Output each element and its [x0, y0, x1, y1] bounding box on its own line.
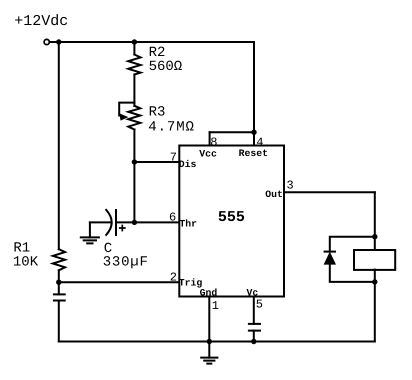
- svg-text:3: 3: [287, 179, 294, 193]
- wire capacitor to bottom rail: [58, 301, 60, 342]
- pin 4 stub: [253, 132, 255, 145]
- R3 wiper arrowhead: [119, 113, 128, 120]
- wire junction I to relay: [374, 237, 376, 250]
- svg-text:R3: R3: [149, 105, 166, 121]
- svg-text:Thr: Thr: [179, 219, 197, 230]
- pin 8 stub: [209, 132, 211, 145]
- svg-text:4.7MΩ: 4.7MΩ: [148, 120, 195, 136]
- wire top rail: [59, 41, 254, 43]
- wire top rail down to pin4: [253, 42, 255, 132]
- pin 3 Out wire: [284, 191, 375, 193]
- R3 wiper hook: [119, 103, 134, 116]
- wire diode bottom: [330, 265, 375, 282]
- ground (bottom): [208, 342, 210, 358]
- svg-text:Reset: Reset: [239, 148, 268, 159]
- svg-text:7: 7: [170, 150, 177, 164]
- resistor R3 (trimmer): [128, 106, 140, 130]
- wire left vertical down to R1: [58, 42, 60, 249]
- svg-text:6: 6: [169, 211, 176, 225]
- pin labels: [169, 135, 294, 313]
- wire C plus plate to junction G: [116, 221, 134, 223]
- svg-text:10K: 10K: [13, 255, 39, 271]
- wire relay to junction J: [374, 270, 376, 282]
- node A junction dot: [56, 39, 61, 44]
- svg-text:2: 2: [170, 270, 177, 284]
- terminal +12Vdc: [44, 39, 49, 44]
- wire out down: [374, 192, 376, 236]
- C plus sign: [119, 225, 126, 232]
- resistor R1: [53, 249, 65, 270]
- svg-text:555: 555: [218, 209, 245, 226]
- wire junction F down to junction G: [133, 162, 135, 222]
- wire R1 to junction B: [58, 270, 60, 282]
- node junction dot E (R2 top): [132, 39, 137, 44]
- op-amp/IC U1 555 body: [179, 146, 284, 297]
- wire to diode branch top: [330, 237, 375, 252]
- relay K1 coil box: [354, 250, 395, 270]
- wire pin8 to pin4: [210, 131, 254, 133]
- capacitor C (polarized) straight plate: [115, 210, 117, 235]
- svg-text:Dis: Dis: [179, 159, 197, 170]
- svg-text:330µF: 330µF: [103, 255, 149, 271]
- wire ground to C curved plate: [90, 221, 110, 223]
- wire R2 to R3: [133, 75, 135, 106]
- capacitor C2 (left, plates): [53, 294, 66, 300]
- svg-text:560Ω: 560Ω: [149, 59, 183, 75]
- node G junction dot: [132, 220, 137, 225]
- node H junction dot: [251, 130, 256, 135]
- node D junction dot: [251, 339, 256, 344]
- svg-text:5: 5: [256, 298, 263, 312]
- svg-text:1: 1: [212, 299, 219, 313]
- resistor R2: [128, 55, 140, 75]
- capacitor C curved plate: [106, 210, 112, 235]
- node C junction dot: [207, 339, 212, 344]
- wire pin7 Dis: [134, 161, 179, 163]
- wire cap to rail: [253, 331, 255, 342]
- svg-text:+12Vdc: +12Vdc: [14, 13, 68, 30]
- node F junction dot: [132, 159, 137, 164]
- wire pin2 Trig: [59, 281, 180, 283]
- svg-text:8: 8: [210, 135, 217, 149]
- node +12Vdc label: [14, 13, 68, 30]
- ground (near C): [89, 222, 91, 237]
- wire rail to R2: [133, 42, 135, 55]
- pin 1 stub down to rail: [208, 297, 210, 342]
- capacitor C3 (pin5) plates: [248, 324, 261, 331]
- wire pin6 Thr: [134, 221, 179, 223]
- node J junction dot: [372, 279, 377, 284]
- wire R3 to junction F: [133, 130, 135, 163]
- wire junction J to bottom rail: [374, 282, 376, 342]
- node I junction dot: [372, 234, 377, 239]
- pin 5 stub: [253, 297, 255, 324]
- svg-text:Vcc: Vcc: [199, 148, 217, 159]
- svg-text:Out: Out: [265, 189, 283, 200]
- wire bottom rail: [59, 341, 375, 343]
- node B junction dot: [56, 280, 61, 285]
- wire junction B down to capacitor: [58, 282, 60, 294]
- diode D1 triangle: [324, 252, 336, 265]
- wire terminal to junction: [50, 41, 59, 43]
- diode D1 cathode bar: [324, 251, 336, 253]
